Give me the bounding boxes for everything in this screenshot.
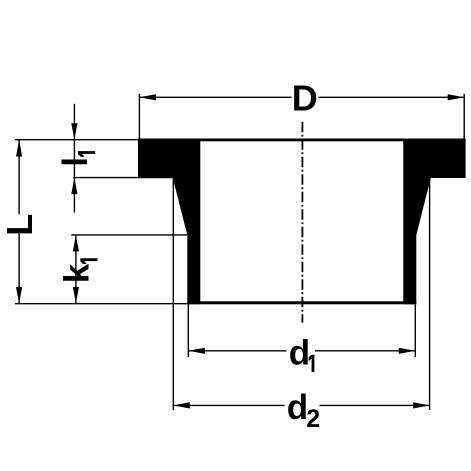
svg-text:l: l	[56, 157, 95, 167]
svg-text:k: k	[57, 263, 96, 283]
svg-text:L: L	[0, 214, 40, 236]
svg-text:d: d	[289, 333, 310, 372]
svg-text:D: D	[292, 77, 318, 118]
